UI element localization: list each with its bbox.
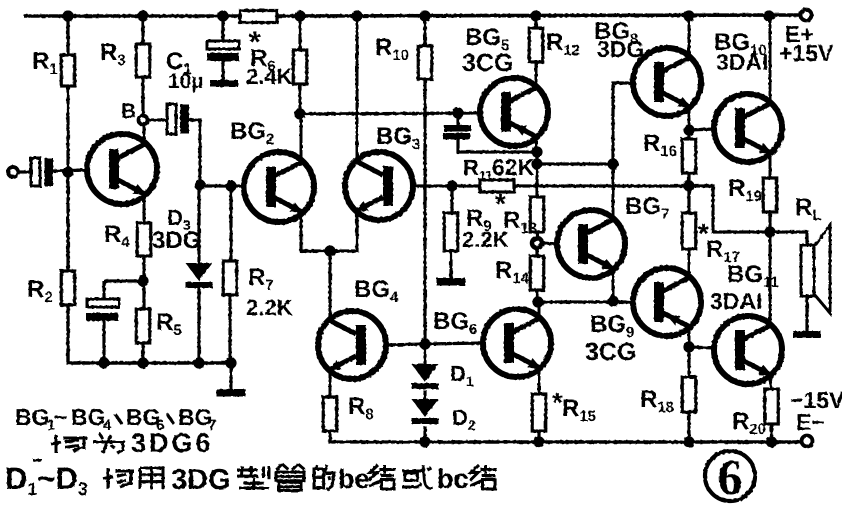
wire BG7 base from mid node xyxy=(541,243,558,244)
wire BG6 emitter to R15 xyxy=(538,367,541,395)
wire BG7 emitter down xyxy=(612,268,615,302)
node rail junction R10 xyxy=(419,10,430,21)
svg-text:D1~D3: D1~D3 xyxy=(5,461,88,499)
capacitor C1 column wire xyxy=(221,16,224,42)
ground (R9) xyxy=(437,278,466,286)
wire BG8 emitter to R16 xyxy=(687,130,690,140)
capacitor BG5 compensation (plate 1) xyxy=(444,125,471,132)
node BG6 collector junction xyxy=(532,296,543,307)
capacitor input coupling (plate +) xyxy=(31,158,40,186)
node output junction xyxy=(764,226,775,237)
wire BG4 emitter to R8 xyxy=(329,369,332,398)
svg-text:E−: E− xyxy=(796,409,825,435)
node bottom rail R18 junction xyxy=(683,436,694,447)
resistor R14 xyxy=(530,256,544,290)
wire BG3 collector to rail xyxy=(356,16,359,162)
svg-text:3CG: 3CG xyxy=(462,49,513,77)
wire R16 to feedback node xyxy=(687,173,690,186)
svg-text:+15V: +15V xyxy=(779,40,834,66)
node BG2 collector junction xyxy=(294,108,305,119)
wire R7 to ground rail xyxy=(228,295,231,363)
transistor BG9 (PNP) xyxy=(633,268,701,336)
resistor R6 2.4K (in supply rail, horizontal) xyxy=(240,11,277,23)
node rail junction collector-load xyxy=(294,10,305,21)
capacitor B bootstrap (plate +) xyxy=(167,104,176,134)
wire R3 bottom to node B xyxy=(141,77,144,116)
transistor BG7 xyxy=(557,210,625,278)
wire feedback to output jog xyxy=(514,184,689,187)
wire feedback jog to output node xyxy=(689,186,771,232)
wire BG10 emitter to R19 xyxy=(769,152,772,179)
wire BG5 base cap down xyxy=(456,113,459,126)
resistor R19 xyxy=(763,178,777,212)
node ground rail cap junction xyxy=(98,357,109,368)
wire bypass cap to ground rail xyxy=(102,321,105,363)
node BG5 emitter junction xyxy=(531,146,542,157)
wire emitter node to BG4 collector xyxy=(328,251,331,322)
note line 3 CJK: jun yong (均用) xyxy=(103,468,163,489)
wire R7 top xyxy=(229,186,232,262)
terminal E- -15V xyxy=(802,436,813,447)
node R4/R5 cap junction xyxy=(137,275,148,286)
wire mid node to R14 xyxy=(535,247,538,257)
wire BG5 collector to R12 xyxy=(535,62,538,88)
resistor R13 xyxy=(530,197,544,232)
ground (speaker) xyxy=(793,331,821,338)
wire BG2 emitter down to shared node xyxy=(301,211,331,251)
resistor R18 xyxy=(682,377,696,412)
node D3 top junction xyxy=(194,179,205,190)
speaker RL body xyxy=(801,245,814,296)
node ground rail R7 junction xyxy=(225,357,236,368)
capacitor C1 (plate +) xyxy=(207,41,239,49)
resistor R10 xyxy=(418,46,432,79)
svg-text:4: 4 xyxy=(103,417,112,434)
ground (bottom left) xyxy=(230,363,233,389)
wire D3 column xyxy=(197,186,200,264)
wire feedback left segment xyxy=(452,184,481,187)
wire BG9 emitter down xyxy=(688,326,691,348)
wire BG8 base column xyxy=(613,83,633,164)
note line 3 leading dash artifact xyxy=(33,459,42,462)
wire R4 to R5 xyxy=(142,256,145,310)
wire output node to speaker xyxy=(770,232,807,246)
svg-text:BG: BG xyxy=(71,404,106,430)
wire R12 top xyxy=(534,16,537,29)
note line 3 CJK: jie (结) xyxy=(369,465,396,489)
svg-text:3DG: 3DG xyxy=(171,464,231,496)
wire BG5 emitter down xyxy=(535,136,538,153)
wire emitter node to R13 column xyxy=(535,152,538,198)
node bottom rail R20 junction xyxy=(766,436,777,447)
wire bottom -15V rail xyxy=(425,440,802,444)
node B (open circle) xyxy=(139,116,148,125)
wire BG9 collector to R17 xyxy=(688,249,691,278)
svg-text:3DAI: 3DAI xyxy=(710,288,762,314)
resistor R1 xyxy=(61,55,75,86)
transistor BG3 (mirrored) xyxy=(345,152,413,220)
wire R13-node to BG8 base column xyxy=(537,162,613,165)
transistor BG6 xyxy=(483,309,551,377)
wire R9 top xyxy=(450,186,453,214)
note line 3 CJK: xing guan de (型管的) xyxy=(237,464,334,490)
wire D1 column top xyxy=(423,344,426,365)
wire BG11 collector to output node xyxy=(769,232,772,326)
resistor R17 xyxy=(682,213,696,249)
node rail junction C1 xyxy=(217,10,228,21)
wire R8 to bottom rail xyxy=(330,431,425,442)
node BG11 base junction xyxy=(683,341,694,352)
transistor BG4 (mirrored) xyxy=(318,311,386,379)
wire R19 to output node xyxy=(768,212,771,233)
svg-text:be: be xyxy=(338,464,370,494)
wire R5 to ground rail xyxy=(141,343,144,363)
wire BG10 collector to rail xyxy=(769,16,772,104)
wire R15 to bottom rail xyxy=(537,431,540,442)
resistor R8 xyxy=(323,397,337,431)
wire BG11 emitter to R20 xyxy=(770,374,771,390)
wire D1 to D2 xyxy=(423,390,426,400)
node bottom rail R15 junction xyxy=(533,436,544,447)
node R7 top junction xyxy=(225,180,236,191)
node rail junction R1 xyxy=(62,10,73,21)
terminal E+ +15V xyxy=(801,10,812,21)
resistor R15 xyxy=(532,394,546,431)
svg-text:10µ: 10µ xyxy=(168,70,203,93)
wire comp cap to emitter node xyxy=(458,139,538,152)
wire BG1 collector to node B xyxy=(143,124,146,145)
wire BG9 emitter to R18 xyxy=(687,348,690,378)
node BG8 emitter junction xyxy=(683,124,694,135)
wire R10 long vertical to bias node xyxy=(423,79,426,344)
resistor R9 xyxy=(444,213,458,251)
wire cap branch vertical xyxy=(102,281,105,301)
svg-text:3DG: 3DG xyxy=(597,36,644,62)
wire node B to cap xyxy=(147,118,168,121)
wire C1 to ground xyxy=(221,61,224,81)
node R13 top junction xyxy=(531,158,542,169)
wire BG2 collector node to BG5 base xyxy=(300,113,481,114)
wire D2 to bottom rail xyxy=(423,426,426,442)
capacitor BG5 compensation (plate 2) xyxy=(443,133,470,140)
wire top +15V supply rail (left section) xyxy=(24,14,241,18)
svg-text:3DG: 3DG xyxy=(152,227,201,254)
wire cap to D3/R7 node xyxy=(189,120,200,186)
wire input to coupling cap xyxy=(18,170,32,173)
transistor BG2 xyxy=(244,152,314,222)
svg-text:3CG: 3CG xyxy=(585,338,636,366)
wire BG8 collector to rail xyxy=(688,16,691,58)
resistor R4 xyxy=(137,223,151,256)
wire R10 top xyxy=(423,16,426,47)
speaker RL horn xyxy=(814,225,830,313)
capacitor C1 (plate -) xyxy=(207,53,239,61)
node bias D1/BG6 junction xyxy=(419,338,430,349)
resistor R11 (horizontal) xyxy=(480,180,514,192)
svg-text:B: B xyxy=(121,100,136,123)
node BG8 base column junction xyxy=(607,158,618,169)
note line 2 CJK: jun wei (均为) xyxy=(51,433,125,453)
wire cap branch horizontal xyxy=(104,279,143,282)
node BG2/BG3 emitter junction xyxy=(324,245,335,256)
node R16/R17 junction xyxy=(683,180,694,191)
node BG5 base junction xyxy=(452,107,463,118)
svg-text:2.2K: 2.2K xyxy=(462,227,509,252)
diode D1 xyxy=(412,364,439,382)
wire R13 to mid node xyxy=(535,232,538,239)
node rail junction BG10 collector xyxy=(763,10,774,21)
wire D3 to ground rail xyxy=(197,287,200,363)
diode D2 xyxy=(412,399,439,417)
note line 3 CJK: jie (结) second xyxy=(470,465,497,489)
wire R9 to ground xyxy=(449,251,452,279)
wire R3 top xyxy=(141,16,144,45)
node ground rail R5 junction xyxy=(137,357,148,368)
wire BG1 emitter to R4 xyxy=(143,193,146,224)
node rail junction R3 xyxy=(137,10,148,21)
resistor R12 xyxy=(529,28,543,62)
capacitor input coupling (plate -) xyxy=(45,158,54,186)
node rail junction BG3 collector xyxy=(351,10,362,21)
transistor BG8 xyxy=(633,48,701,116)
resistor R5 xyxy=(136,309,150,343)
wire R20 to bottom rail xyxy=(770,424,773,442)
resistor R20 xyxy=(765,389,779,424)
wire feedback node to R17 xyxy=(687,186,690,214)
wire collector load resistor top xyxy=(298,16,301,51)
wire node to BG2 base xyxy=(200,184,245,187)
node BG7 emitter junction xyxy=(607,295,618,306)
wire BG4 base to bias node xyxy=(386,344,425,345)
wire BG6 collector up xyxy=(538,302,541,319)
figure number 6 (circled) xyxy=(705,451,755,501)
wire BG11 base xyxy=(689,347,715,348)
transistor BG1 xyxy=(87,134,157,204)
resistor collector load (unlabelled) xyxy=(293,50,307,84)
svg-text:2.2K: 2.2K xyxy=(246,295,293,320)
wire R1 column xyxy=(66,16,69,56)
capacitor emitter bypass (plate -) xyxy=(86,313,118,321)
node rail junction BG8 collector xyxy=(683,10,694,21)
svg-text:BG: BG xyxy=(15,404,50,430)
ground (C1) xyxy=(210,80,238,87)
wire bias node to BG6 base xyxy=(425,343,484,344)
wire R18 to bottom rail xyxy=(687,412,690,442)
wire R2 to ground rail xyxy=(68,305,233,363)
svg-text:62K: 62K xyxy=(492,154,535,180)
node feedback/R9 junction xyxy=(446,180,457,191)
svg-text:bc: bc xyxy=(437,464,469,494)
transistor BG10 xyxy=(714,94,782,162)
diode D3 xyxy=(186,263,213,281)
svg-text:3DAI: 3DAI xyxy=(716,49,768,75)
wire BG10 base xyxy=(689,129,715,130)
wire BG8 emitter down xyxy=(688,106,691,131)
wire speaker to ground xyxy=(805,296,808,331)
node rail junction R12 xyxy=(530,10,541,21)
capacitor B bootstrap (plate -) xyxy=(180,105,189,134)
resistor R16 xyxy=(682,139,696,173)
resistor R2 xyxy=(61,271,75,305)
wire R14 to BG6 collector node xyxy=(535,290,538,303)
svg-text:2.4K: 2.4K xyxy=(246,64,293,89)
resistor R7 xyxy=(223,261,237,295)
svg-text:3DG6: 3DG6 xyxy=(131,428,214,458)
wire coupling cap to BG1 base xyxy=(53,170,88,171)
wire BG3 emitter down to shared node xyxy=(330,210,357,251)
note line 3 CJK: huo (或) xyxy=(402,465,433,488)
node ground rail D3 junction xyxy=(193,357,204,368)
note line 1: BG1~BG4, BG6, BG7 xyxy=(15,404,216,434)
wire R1 to input node xyxy=(66,86,69,272)
node R13/R14 (open circle) xyxy=(532,238,542,248)
node input junction xyxy=(62,166,73,177)
wire collector load to BG2 collector node xyxy=(298,84,301,114)
node bottom rail D2 junction xyxy=(419,436,430,447)
svg-text:6: 6 xyxy=(718,449,743,505)
resistor R3 xyxy=(136,44,150,77)
transistor BG11 xyxy=(714,316,782,384)
wire BG3 base to feedback node xyxy=(413,184,453,187)
transistor BG5 (PNP) xyxy=(480,78,548,146)
wire BG2 collector up xyxy=(300,114,303,163)
wire top +15V supply rail (right section) xyxy=(276,15,801,16)
wire BG9 base row xyxy=(538,300,634,303)
wire BG7 collector up xyxy=(612,165,615,220)
svg-text:~: ~ xyxy=(54,404,67,430)
terminal input xyxy=(8,167,18,177)
capacitor emitter bypass (plate +) xyxy=(87,299,119,307)
